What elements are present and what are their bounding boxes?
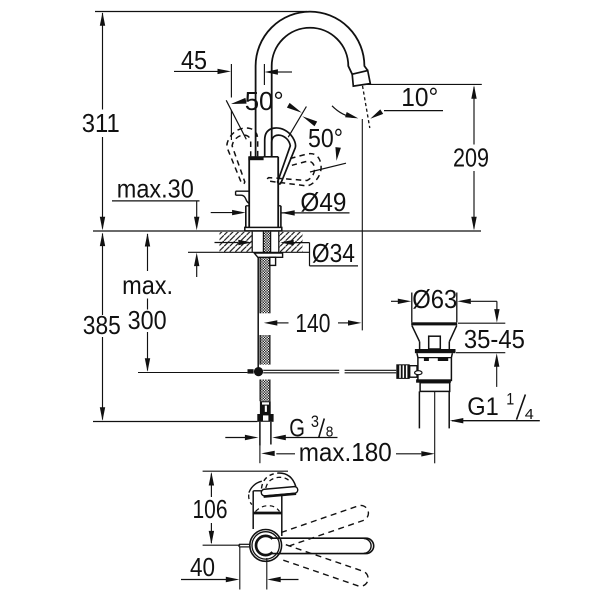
pop-up horizontal rod: [263, 370, 396, 373]
dimension 40 extension lines: [240, 547, 267, 590]
top view spout ring outer: [250, 530, 282, 562]
top view spout dashed position lower: [281, 545, 368, 587]
dimension 35-45 lower ref line: [456, 352, 505, 354]
dimension G1-1/4 underline: [452, 420, 540, 422]
dimension 35-45 upper ref line: [458, 322, 505, 324]
threaded shank (braided section): [263, 232, 270, 254]
G3/8 connector nut: [257, 414, 273, 422]
handle dashed position right (rotated 50): [263, 151, 325, 195]
svg-text:Ø63: Ø63: [412, 284, 457, 314]
svg-text:300: 300: [128, 305, 167, 335]
svg-text:G1: G1: [467, 393, 499, 421]
pop-up rod clamp: [248, 369, 254, 373]
svg-text:35-45: 35-45: [464, 324, 525, 354]
dimension max.300 arrows: [145, 233, 150, 372]
right 50 down arrow: [335, 147, 341, 161]
flexible hose braided segment 3: [260, 380, 270, 402]
top view handle loop arc solid: [279, 473, 296, 487]
svg-text:40: 40: [190, 552, 215, 582]
right 50 upper arrow: [287, 103, 302, 113]
dimension 45 label: [181, 45, 207, 75]
spout inner curve: [272, 28, 353, 157]
spout aerator tip: [352, 71, 370, 87]
top view spout bar: [272, 538, 374, 553]
svg-text:106: 106: [193, 494, 228, 524]
svg-text:10°: 10°: [401, 82, 438, 112]
waste collar: [420, 383, 450, 392]
svg-text:45: 45: [181, 45, 207, 75]
faucet body outline: [249, 157, 278, 228]
svg-text:max.30: max.30: [117, 173, 194, 203]
top view handle left hook: [249, 481, 262, 504]
top view body top edge: [253, 490, 263, 492]
waste plug sides: [412, 293, 457, 323]
dimension dia34 label: [312, 238, 355, 268]
waste body bottom bar: [416, 379, 451, 382]
dimension 10-degree label: [401, 82, 438, 112]
dimension max180 right arrow: [396, 451, 435, 456]
dimension 300 label: [128, 305, 167, 335]
dimension dia63 right arrow: [457, 299, 497, 304]
top view body: [253, 491, 282, 536]
top view pop-up pin: [239, 544, 251, 547]
spout tip vertical extension line: [361, 119, 363, 330]
dimension 106 dim line: [210, 474, 212, 544]
dimension 385 label: [83, 310, 121, 340]
left 50 reference line: [226, 100, 246, 139]
dimension dia34 leader: [285, 243, 359, 266]
top view spout ring inner: [252, 532, 279, 559]
right 50 lower arrow: [302, 116, 317, 126]
counter underside line: [188, 251, 310, 253]
waste neck: [412, 326, 457, 349]
dimension G1-1/4 label: [467, 390, 534, 424]
dimension 106 label: [193, 494, 228, 524]
dimension 35-45 upper arrow: [494, 301, 499, 322]
dimension 209 dim line: [473, 87, 475, 229]
waste seal flange: [415, 349, 456, 353]
dimension 311 arrows: [100, 12, 105, 230]
spout swivel arc arrow: [345, 112, 358, 118]
dimension 311 extension/dim line: [102, 13, 104, 229]
dimension 311 label: [82, 108, 120, 138]
dimension 10-degree leader line: [384, 110, 443, 112]
svg-text:209: 209: [453, 143, 489, 173]
pop-up rod connector block: [410, 366, 417, 378]
top reference line (spout apex level): [95, 11, 307, 13]
flexible hose braided segment 2: [260, 335, 270, 365]
faucet body top thick segment: [248, 156, 263, 160]
dimension 10-degree arrow: [370, 109, 383, 118]
dimension dia63 left arrow: [391, 299, 411, 304]
top view handle loop arc dashed: [262, 473, 291, 489]
dimension max.30 upper arrow: [194, 201, 199, 230]
dimension 45 extension lines: [231, 64, 264, 140]
svg-text:1: 1: [506, 390, 514, 409]
dimension 209 top reference line: [364, 83, 482, 85]
dimension G3/8 label: [289, 412, 333, 443]
dimension 40 arrows: [181, 577, 299, 582]
svg-text:311: 311: [82, 108, 120, 138]
pop-up vertical rod: [257, 257, 259, 369]
faucet base flange: [245, 227, 282, 231]
pop-up rod ball detail: [415, 371, 422, 375]
svg-text:385: 385: [83, 310, 121, 340]
waste tailpipe: [419, 391, 449, 428]
right dashed-loop axis line: [310, 163, 346, 172]
spout swivel arc: [332, 106, 355, 118]
handle swing 50-degree label left: [245, 86, 284, 116]
top view body hidden cartridge dashed: [255, 506, 279, 512]
svg-text:3: 3: [311, 412, 319, 431]
dimension dia49 underline: [281, 212, 350, 214]
dimension G1-1/4 arrow: [450, 418, 464, 423]
pop-up rod knurled nut: [396, 364, 409, 379]
dimension max.30 lower arrow: [194, 253, 199, 277]
left 50 arrow: [231, 98, 247, 104]
G3/8 connector tube: [260, 422, 271, 446]
spout outer curve: [256, 12, 368, 157]
dimension 35-45 label: [464, 324, 525, 354]
svg-text:4: 4: [525, 406, 534, 423]
dimension max.300 dim line: [147, 234, 149, 371]
countertop deck line: [93, 230, 481, 232]
top view 106 lower ref line: [203, 544, 241, 546]
dimension 40 label: [190, 552, 215, 582]
dimension 140 right arrow: [338, 320, 362, 325]
handle loop solid: [265, 128, 296, 184]
hose crimp ferrule: [260, 401, 271, 414]
mounting hole sleeve lines: [252, 232, 279, 253]
dimension dia63 label: [412, 284, 457, 314]
counter slab hatched right: [279, 232, 302, 252]
waste body: [417, 353, 453, 381]
top view 106 upper ref line: [203, 470, 288, 472]
dimension 140 left arrow: [264, 320, 289, 325]
dimension max180 label: [299, 437, 392, 467]
dimension 35-45 lower arrow: [494, 353, 499, 387]
svg-text:140: 140: [295, 308, 330, 338]
dimension max.30 underline: [112, 200, 200, 202]
flexible hose braided segment 1: [260, 258, 270, 314]
dimension dia49 left arrow: [211, 210, 246, 215]
handle swing 50-degree label right: [308, 123, 343, 153]
dimension 385 dim line: [102, 234, 104, 420]
dimension max180 left arrow: [261, 451, 295, 456]
dimension dia34 right arrow: [280, 240, 294, 245]
pop-up rod reference line: [138, 372, 247, 374]
mounting nut: [254, 253, 282, 265]
dimension G3/8 dim arrows: [225, 435, 337, 440]
pop-up rod pivot dot: [254, 367, 263, 376]
dimension 45 right arrow: [264, 69, 292, 74]
svg-text:50°: 50°: [245, 86, 284, 116]
dimension 209 arrows: [471, 85, 476, 230]
svg-text:Ø34: Ø34: [312, 238, 355, 268]
counter slab hatched left: [220, 232, 252, 252]
dimension 140 label: [295, 308, 330, 338]
dimension 106 arrows: [209, 472, 214, 544]
max180 left extension line: [259, 446, 261, 464]
dimension 385 arrows: [100, 233, 105, 421]
waste stem knob: [429, 336, 441, 349]
svg-text:max.: max.: [122, 270, 173, 300]
dimension max.30 label: [117, 173, 194, 203]
top view handle grip: [261, 486, 298, 496]
waste plug cap bar: [411, 322, 457, 325]
top view spout dashed position upper: [281, 505, 368, 547]
bottom reference line (hose end level): [93, 421, 257, 423]
pop-up knob pin: [236, 191, 250, 203]
top view spout bend thick arc: [256, 536, 272, 555]
water stream 10-degree dashed line: [363, 86, 370, 128]
dimension 45 left arrow: [174, 69, 231, 74]
dimension dia49 right arrow: [281, 210, 295, 215]
right 50 reference line (handle axis): [288, 107, 306, 138]
dimension max. label: [122, 270, 173, 300]
waste body slots: [424, 358, 448, 361]
drain center extension line: [434, 392, 436, 464]
handle dashed position left (rotated 50): [227, 128, 258, 184]
dimension dia49 label: [300, 187, 346, 217]
dimension dia34 left arrow: [215, 240, 252, 245]
dimension 209 label: [453, 143, 489, 173]
svg-text:max.180: max.180: [299, 437, 392, 467]
faucet base shoulder: [246, 206, 281, 228]
